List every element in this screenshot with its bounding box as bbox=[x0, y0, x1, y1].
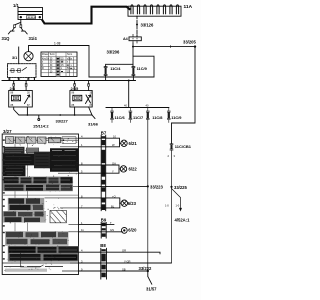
fuses bbox=[131, 5, 179, 14]
svg-text:31Q: 31Q bbox=[2, 36, 11, 41]
relay 2/8 bbox=[9, 91, 33, 108]
svg-text:33/126: 33/126 bbox=[141, 23, 154, 28]
big dark mass mid bbox=[34, 152, 50, 169]
connector 11C/9b bbox=[167, 108, 170, 123]
feed line Q bbox=[2, 80, 136, 82]
node 33/206 label bbox=[132, 46, 134, 48]
ground 31/66 bbox=[92, 115, 95, 119]
svg-text:Y: Y bbox=[112, 170, 114, 174]
big dark mass right lobe bbox=[50, 148, 78, 172]
svg-text:11C/4: 11C/4 bbox=[110, 66, 121, 71]
lamp 6/22 bbox=[120, 166, 126, 172]
svg-text:4/52A:1: 4/52A:1 bbox=[175, 218, 191, 223]
row 6/21 a bbox=[79, 138, 121, 143]
ignition switch symbol bbox=[24, 52, 33, 61]
svg-text:KeyOn: KeyOn bbox=[42, 59, 50, 61]
internal bus verticals bbox=[15, 136, 28, 262]
big dark mass lower-left bbox=[3, 165, 26, 176]
internal wire y195 bbox=[3, 194, 79, 196]
table of positions bbox=[41, 52, 77, 77]
svg-text:OA: OA bbox=[112, 161, 116, 165]
fuse box 11A bbox=[128, 6, 181, 16]
divider bbox=[2, 262, 78, 264]
svg-text:3/27: 3/27 bbox=[3, 129, 12, 134]
svg-text:6/21: 6/21 bbox=[129, 141, 138, 146]
wire battery negative down bbox=[15, 20, 21, 25]
feed line P bbox=[89, 76, 154, 78]
row 1 band: small switch boxes bbox=[5, 139, 79, 141]
connector strip B8 bbox=[101, 248, 107, 279]
svg-text:B9: B9 bbox=[101, 218, 107, 223]
internal row wires to right edge bbox=[45, 138, 79, 271]
wire A4 down bbox=[132, 43, 134, 67]
left edge terminal specks bbox=[3, 139, 5, 259]
svg-text:31/4: 31/4 bbox=[29, 36, 38, 41]
splice 15/114:2 bbox=[38, 115, 40, 119]
row 33/223 bbox=[79, 185, 148, 187]
svg-text:Term: Term bbox=[67, 53, 72, 56]
row 6/22 b bbox=[79, 169, 120, 173]
relay 2/8 pins bbox=[14, 81, 26, 91]
ignition pins to bus bbox=[9, 77, 34, 80]
connector 11C/6 bbox=[111, 108, 114, 123]
row 6/23 a bbox=[79, 198, 122, 203]
interior clusters of 3/27 bbox=[2, 136, 79, 272]
connector 11C/9 top bbox=[132, 67, 135, 76]
svg-text:11C/9: 11C/9 bbox=[137, 66, 148, 71]
svg-text:11C/8: 11C/8 bbox=[152, 115, 163, 120]
svg-text:6/23: 6/23 bbox=[128, 201, 137, 206]
node 33/232 bbox=[147, 270, 149, 272]
svg-text:33/225: 33/225 bbox=[174, 185, 187, 190]
band i dense dark bbox=[8, 246, 79, 262]
wire into ignition bbox=[18, 47, 20, 64]
connector strip B7 bbox=[101, 135, 106, 211]
node 33/205 bbox=[194, 45, 196, 47]
svg-text:SB: SB bbox=[122, 267, 126, 271]
lamp 6/20 bbox=[121, 228, 127, 234]
svg-text:B8: B8 bbox=[100, 243, 106, 248]
svg-text:6/22: 6/22 bbox=[129, 167, 138, 172]
svg-text:BL: BL bbox=[111, 204, 115, 208]
svg-text:11A: 11A bbox=[184, 4, 193, 10]
svg-text:1-08: 1-08 bbox=[54, 42, 61, 46]
right edge wire from 33/205 bbox=[172, 47, 196, 144]
svg-text:33/223: 33/223 bbox=[150, 185, 163, 190]
row 6/20 bbox=[79, 231, 123, 233]
wire to ground 31Q bbox=[8, 28, 14, 34]
branch to 4/52A:1 bbox=[172, 189, 181, 209]
wire color labels bbox=[81, 135, 131, 272]
svg-text:Y-GR: Y-GR bbox=[124, 259, 131, 263]
svg-text:11C/9: 11C/9 bbox=[171, 115, 182, 120]
svg-text:15/114:2: 15/114:2 bbox=[33, 124, 49, 129]
band e dense full width bbox=[3, 177, 73, 192]
svg-text:11C/CB1: 11C/CB1 bbox=[175, 144, 192, 149]
node 33/126 bbox=[136, 24, 138, 26]
svg-text:1-0: 1-0 bbox=[165, 204, 169, 208]
row B9 stub bbox=[79, 224, 114, 226]
row B8-2 bbox=[79, 262, 172, 264]
connector 11C/7 bbox=[129, 108, 132, 123]
thick battery cable bbox=[43, 7, 130, 24]
node 33/227 bbox=[59, 114, 61, 116]
relay 2/35 bbox=[70, 91, 92, 108]
battery 1/1 bbox=[18, 8, 43, 20]
svg-text:33/205: 33/205 bbox=[183, 39, 196, 44]
connector 11C/4 bbox=[104, 67, 107, 76]
switch module 3/27 bbox=[2, 134, 78, 275]
svg-text:GN: GN bbox=[110, 228, 114, 232]
svg-text:33/206: 33/206 bbox=[107, 50, 120, 55]
svg-text:31/57: 31/57 bbox=[146, 287, 157, 292]
node 33/225 bbox=[170, 186, 172, 188]
big dark mass left lobe bbox=[3, 154, 34, 166]
wire relay commons bbox=[14, 107, 92, 115]
svg-text:6/20: 6/20 bbox=[128, 228, 137, 233]
wire fusebox to A4 bbox=[136, 16, 138, 37]
wire CB1 down bbox=[170, 150, 172, 263]
row B8-3 bbox=[79, 270, 148, 272]
row 6/22 a bbox=[79, 165, 121, 169]
connector bus 11C row bbox=[106, 107, 169, 109]
cluster 2 small bbox=[4, 147, 25, 154]
hatched box bbox=[50, 210, 66, 222]
row 6/21 b bbox=[79, 143, 120, 147]
connector strip B9 bbox=[101, 223, 106, 239]
svg-text:1-0: 1-0 bbox=[176, 204, 180, 208]
connector 11C/8 bbox=[146, 108, 149, 120]
svg-text:31/66: 31/66 bbox=[88, 122, 99, 127]
svg-text:Term: Term bbox=[50, 53, 55, 56]
svg-text:10: 10 bbox=[113, 135, 116, 139]
svg-text:33/227: 33/227 bbox=[56, 119, 69, 124]
relay 2/35 pins bbox=[75, 81, 89, 91]
wire loop 11C/4 11C/9 bbox=[106, 56, 154, 80]
svg-text:11C/7: 11C/7 bbox=[133, 115, 143, 120]
node at 27.4 bbox=[27, 114, 29, 116]
ground lead 31/57 bbox=[148, 272, 152, 284]
connector 11C/CB1 bbox=[170, 144, 173, 151]
svg-text:11C/6: 11C/6 bbox=[115, 115, 126, 120]
node 33/223 bbox=[147, 185, 149, 187]
wire 11C/8 down to 33/232 bbox=[147, 120, 149, 272]
node 33/206 wire to 33/205 bbox=[133, 46, 195, 48]
B7 pin ticks bbox=[100, 138, 107, 208]
svg-text:Power: Power bbox=[42, 53, 49, 56]
switch module texture bbox=[3, 136, 78, 271]
band g bbox=[3, 211, 46, 223]
svg-text:OR: OR bbox=[122, 249, 126, 253]
connector marks bbox=[14, 25, 16, 28]
drop from feed line to bus bbox=[128, 81, 130, 108]
svg-text:33/232: 33/232 bbox=[139, 266, 152, 271]
svg-text:+O: +O bbox=[112, 194, 116, 198]
component A4 bbox=[129, 37, 141, 41]
wire 1-08 bbox=[29, 46, 90, 78]
svg-text:3/1: 3/1 bbox=[12, 56, 17, 60]
wire to ground 31/4 bbox=[21, 28, 27, 34]
lamp 6/23 bbox=[121, 200, 127, 206]
node at 74.6 bbox=[74, 114, 76, 116]
row 6/23 b bbox=[79, 203, 120, 208]
bottom thin content bbox=[4, 266, 63, 268]
band f bbox=[8, 198, 44, 211]
lamp 6/21 bbox=[121, 140, 127, 146]
row B8-1 bbox=[79, 252, 161, 254]
band h bbox=[5, 231, 69, 246]
